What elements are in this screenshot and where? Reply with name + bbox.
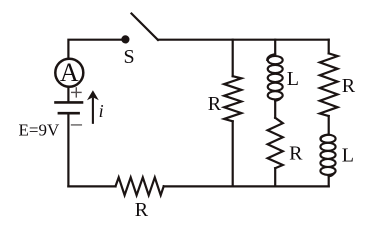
battery E top plate (long, +)	[56, 101, 83, 104]
inductor L branch2 (coil)	[267, 54, 283, 100]
inductor L branch3 (coil)	[320, 135, 335, 177]
resistor R branch2 (vertical)	[268, 118, 283, 168]
svg-text:i: i	[99, 101, 104, 121]
svg-text:L: L	[342, 144, 354, 166]
svg-text:A: A	[60, 58, 79, 87]
battery minus sign	[72, 124, 82, 126]
wire top-left horizontal from ammeter riser to switch contact	[68, 40, 122, 59]
wire branch2 bottom lead	[274, 168, 276, 186]
svg-text:E=9V: E=9V	[19, 121, 60, 140]
wire branch3 bottom lead	[328, 176, 330, 186]
wire branch3 top lead	[328, 40, 330, 54]
switch S blade (open)	[132, 14, 159, 41]
wire branch1 top lead	[232, 40, 234, 76]
svg-text:R: R	[208, 93, 222, 115]
resistor R branch3 (vertical)	[320, 53, 338, 116]
svg-text:R: R	[289, 142, 303, 164]
svg-text:S: S	[124, 46, 135, 68]
wire branch2 top lead	[274, 40, 276, 55]
wire bottom rail left segment	[68, 185, 115, 187]
current arrow i head	[87, 90, 99, 100]
wire ammeter to battery top plate	[67, 87, 69, 101]
wire battery bottom plate to bottom-left corner	[67, 113, 69, 186]
wire top rail from switch pivot to top-right corner	[158, 39, 329, 41]
current arrow i shaft	[92, 99, 94, 123]
wire branch2 middle lead	[274, 100, 276, 118]
node switch contact dot	[121, 35, 129, 43]
svg-text:R: R	[342, 75, 356, 97]
ammeter A (circle)	[55, 59, 83, 87]
svg-text:L: L	[287, 68, 299, 90]
resistor R bottom (horizontal)	[116, 177, 164, 195]
resistor R branch1 (vertical)	[224, 76, 241, 121]
battery plus sign	[72, 88, 81, 97]
battery E bottom plate (short, -)	[59, 112, 79, 115]
wire branch3 middle lead	[328, 116, 330, 135]
wire bottom rail right segment	[164, 185, 329, 187]
wire branch1 bottom lead	[232, 121, 234, 186]
svg-text:R: R	[135, 199, 149, 221]
